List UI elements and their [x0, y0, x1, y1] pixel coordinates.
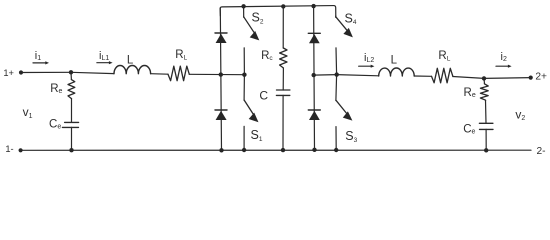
svg-text:RL: RL	[438, 50, 450, 63]
svg-text:RL: RL	[175, 49, 187, 62]
svg-text:v2: v2	[515, 107, 525, 122]
svg-text:S1: S1	[251, 128, 263, 143]
svg-text:2+: 2+	[535, 71, 547, 82]
svg-text:iL2: iL2	[364, 52, 374, 64]
svg-text:iL1: iL1	[99, 50, 109, 62]
svg-text:S3: S3	[345, 129, 357, 144]
svg-text:v1: v1	[23, 105, 33, 120]
svg-text:2-: 2-	[537, 146, 546, 157]
svg-text:Ce: Ce	[463, 124, 475, 136]
svg-text:i2: i2	[501, 51, 507, 63]
svg-text:1-: 1-	[5, 144, 13, 154]
svg-text:S4: S4	[345, 11, 357, 26]
svg-text:i1: i1	[35, 50, 41, 62]
svg-text:C: C	[259, 89, 268, 103]
svg-text:Rc: Rc	[261, 50, 273, 62]
svg-text:S2: S2	[252, 11, 264, 26]
svg-text:Re: Re	[464, 87, 476, 99]
svg-text:Re: Re	[50, 83, 62, 95]
svg-text:Ce: Ce	[49, 119, 61, 131]
svg-text:1+: 1+	[3, 68, 14, 78]
svg-text:L: L	[127, 54, 134, 66]
svg-text:L: L	[391, 55, 398, 67]
